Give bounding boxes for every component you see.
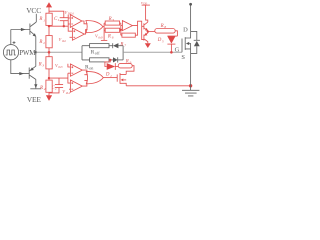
svg-text:2: 2 [43,41,45,45]
wire node to comparators [49,25,68,27]
svg-text:R: R [119,43,123,48]
resistor R3 [46,57,52,69]
supply terminal VDD (red) [142,4,150,6]
svg-text:9: 9 [130,61,132,65]
wire buffer out to push-pull [132,21,144,39]
resistor R6 [105,28,119,32]
wire network left vertical [82,46,90,60]
PWM source [3,41,36,60]
node D5 to gate line [170,51,173,54]
VEE terminal bar [30,88,41,90]
svg-text:VCC: VCC [26,6,41,15]
transistor Q2 (NPN top, black) [11,22,37,37]
wire network to gate (gray) [123,51,182,53]
diode D1 (points right) [107,63,119,70]
svg-text:4: 4 [44,87,46,91]
svg-text:D: D [183,26,188,33]
node emitter junction [35,51,37,53]
svg-text:off: off [95,51,100,56]
wire M1 source down [190,86,192,90]
diode D4 (points right) [113,57,123,62]
svg-text:7: 7 [124,44,126,48]
resistor R8 [155,29,175,34]
wire comparator input column [68,15,72,31]
transistor Q4 (NPN, red) [144,22,148,32]
power MOSFET M1 (black) [182,3,192,86]
wire R9 to Q1 drain [126,66,134,75]
wire Ron tap to D1 [105,60,110,67]
node lower tap [48,77,50,79]
capacitor C2 [49,78,63,93]
OR2 input stubs [84,75,87,81]
wire Q1 source to bottom rail [126,85,190,87]
node push-pull out [147,30,149,32]
comparator U2 [70,28,85,40]
capacitor C1 [60,18,68,27]
svg-text:DD: DD [142,2,147,5]
wire out to R8 [148,31,155,33]
wire Q3 collector to VEE [35,79,37,88]
resistor R7 [122,33,135,37]
OR gate OR1 [86,21,103,33]
svg-text:R: R [107,35,111,40]
wire R4 to VEE2 [48,92,50,95]
svg-text:VEE: VEE [27,95,42,104]
wire to buffer input [121,25,123,27]
wire emitter junction vertical [35,36,37,66]
svg-text:R: R [125,60,129,65]
supply arrow VEE3 (red, down) [46,95,52,101]
svg-text:R: R [38,17,42,22]
comparator U3 [68,64,82,76]
svg-text:1: 1 [58,18,60,22]
wire U3 out to OR2 [82,70,87,75]
svg-text:th2: th2 [62,39,66,43]
node [63,25,65,27]
wire U2 out to OR1 [84,30,87,34]
svg-text:R: R [160,24,164,29]
ground [182,90,199,96]
wire OR1 out [103,26,104,28]
wire R3 to R4 [48,69,50,80]
svg-text:8: 8 [164,25,166,29]
body diode of M1 [191,31,200,53]
wire network right vertical [122,46,124,60]
svg-text:R: R [39,86,43,91]
wire U1 out to OR1 [82,21,88,24]
transistor Q3 (PNP bottom, black) [29,66,36,79]
svg-text:th4: th4 [66,91,70,95]
resistor Ron [90,58,109,62]
svg-text:5: 5 [162,39,164,43]
diode D5 (points down) [167,36,175,52]
wire supply to Q4 [146,5,148,22]
svg-text:5: 5 [112,18,114,22]
wire R1-R2 node [48,25,50,35]
svg-text:3: 3 [42,64,44,68]
svg-text:PWM: PWM [19,49,36,57]
arrow on Q3 base wire [19,72,24,75]
node [120,29,122,31]
svg-text:R: R [38,63,42,68]
wire VCC to Q2 collector [35,14,37,22]
reference bar [101,39,107,41]
svg-text:R: R [108,17,112,22]
wire driver output to gate network (gray) [36,51,82,53]
resistor Roff [90,44,109,48]
node divider mid [48,51,51,54]
diode D3 (points left) [113,43,123,48]
svg-text:6: 6 [112,36,114,40]
comparator U4 [69,80,82,92]
wire R2 to R3 [48,48,50,57]
resistor R1 [46,13,52,25]
buffer U5 [122,21,132,31]
supply arrow VEE2 (red, down) [145,43,151,48]
svg-text:DD1: DD1 [67,12,75,16]
svg-text:R: R [38,40,42,45]
wire U4 out to OR2 [82,81,87,87]
wire top rail to C1 [49,11,64,18]
resistor R5 [105,21,119,25]
svg-text:2: 2 [55,86,57,90]
wire PWM top to Q2 base [10,30,12,45]
wire tap column [68,73,71,83]
OR gate OR2 [86,71,103,83]
svg-text:1: 1 [43,18,45,22]
node Ron tap [109,59,111,61]
wire PWM bottom to Q3 base [11,60,29,74]
svg-text:th3: th3 [58,65,62,69]
wire [109,59,113,61]
wire R5R6 left node [103,23,105,40]
transistor Q5 (PNP, red) [144,32,148,44]
wire tap to comparators [49,77,68,79]
node [48,25,50,27]
svg-text:S: S [181,54,185,61]
resistor R9 [118,64,132,68]
comparator U1 [68,15,82,28]
node rail to MOSFET source [189,84,192,87]
supply arrow VCC2 (red) [46,2,52,7]
wire R5R6 right node [120,23,122,35]
resistor R4 [46,80,52,92]
wire [109,45,113,47]
svg-text:G: G [175,46,180,53]
VEE terminal arrow [34,84,37,88]
svg-text:th0: th0 [98,35,102,39]
wire divider R2 [46,36,52,48]
transistor Q1 (MOSFET, red) [103,73,126,86]
wire R8 to D5 [167,31,177,36]
